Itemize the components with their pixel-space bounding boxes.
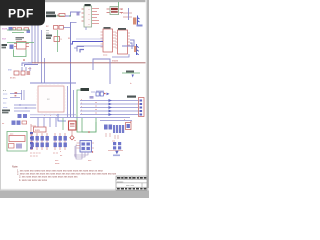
wire (purple bus L2)	[25, 65, 39, 67]
node (red dot on green loop)	[88, 131, 90, 133]
svg-text:xxx: xxx	[46, 33, 49, 35]
wire (green vertical into U2 from top frame)	[118, 2, 120, 6]
label SOT-23 (dark)	[16, 37, 25, 40]
diode D2 (red diamond)	[70, 136, 74, 140]
svg-text:x: x	[50, 115, 51, 117]
svg-text:x: x	[89, 14, 90, 16]
page background	[0, 0, 149, 198]
label (gray text notes right of row1)	[46, 30, 49, 35]
wire (purple bus feeding arrays)	[30, 118, 130, 128]
label Q-dark mid	[46, 35, 52, 40]
background band below page (gradient edge)	[0, 188, 149, 191]
wire (purple bus pair)	[130, 43, 132, 49]
capacitor C4 (blue box row1)	[27, 30, 31, 34]
wire (purple drop below U1)	[85, 27, 87, 30]
relay K1	[9, 134, 26, 149]
transistor Q1	[54, 37, 63, 42]
wire (5 horizontal purple nets to J2)	[80, 101, 138, 115]
pin labels (red ticks at net left ends)	[81, 99, 82, 115]
label tiny red left of bridge	[60, 151, 63, 157]
label MAIN PWR (dark text block right of badge)	[46, 12, 56, 18]
svg-text:xx xx: xx xx	[10, 77, 16, 80]
svg-text:x: x	[44, 115, 45, 117]
value text between nets (red)	[95, 102, 97, 115]
wire (green loop center-bottom)	[82, 118, 96, 132]
op-amp U1 (top middle regulator, green body)	[82, 4, 92, 27]
svg-text:xx xx xx xx: xx xx xx xx	[30, 153, 41, 155]
capacitor C2 C3 (blue pair below nets)	[17, 114, 27, 123]
svg-text:xx xx xx: xx xx xx	[30, 156, 39, 158]
net labels list (left margin)	[2, 90, 10, 113]
wire (purple hook from R4 up)	[64, 23, 77, 28]
wire (green vertical through Q1)	[57, 30, 59, 52]
svg-text:x: x	[81, 106, 82, 108]
transistor pair Q13-Q14 (2x2 blue grid right bottom)	[108, 141, 123, 151]
ic U6 (right upper tall IC)	[116, 28, 131, 54]
wire (purple bus L shapes left)	[22, 63, 32, 66]
svg-text:+: +	[130, 81, 132, 85]
wire (blue L bottom right of MCU)	[58, 114, 66, 121]
capacitor C1 (blue box)	[10, 45, 14, 49]
net flag (blue arrow + label below grid)	[113, 151, 120, 156]
connector J1 (blue, top right)	[133, 16, 143, 27]
wire (green net lower right with label)	[122, 71, 140, 74]
wire (purple bus verticals from top area)	[32, 26, 45, 84]
wire (red nets to J1)	[123, 13, 132, 17]
background band top edge	[0, 0, 149, 2]
svg-text:xxx x xxx: xxx x xxx	[126, 185, 134, 187]
wire (green net row 1)	[7, 30, 30, 33]
svg-text:PDF: PDF	[8, 7, 34, 21]
net flags (blue column right of relay)	[30, 132, 33, 149]
wire (purple nets into MCU left)	[10, 90, 36, 111]
ic U7 (mid-right small IC)	[101, 27, 117, 57]
resistor R3 (row at 25-30)	[46, 25, 63, 29]
svg-text:x: x	[89, 9, 90, 11]
capacitor C5 (purple box left of U1)	[77, 13, 80, 16]
svg-text:xxxxx: xxxxx	[112, 60, 119, 63]
transistor array Q2-Q5 (group 1)	[31, 133, 49, 150]
node (red marks near net list)	[15, 92, 18, 96]
resistor R5 R6 (right of label)	[90, 92, 96, 99]
svg-text:xxxx: xxxx	[35, 129, 41, 132]
wire (green vertical left of F2)	[62, 118, 64, 130]
crystal Y1 cluster	[8, 67, 30, 80]
svg-text:x: x	[89, 24, 90, 26]
pin name text inside U1	[89, 9, 90, 26]
svg-text:x: x	[81, 103, 82, 105]
sheet frame left line	[0, 2, 1, 190]
wire (red net to relay area)	[31, 124, 36, 150]
label red small below J2	[124, 119, 133, 123]
wire (purple bus right bottom)	[100, 120, 132, 122]
wire (green loop right)	[77, 90, 96, 132]
wire (purple bus corner nested)	[80, 50, 84, 53]
svg-text:xx: xx	[95, 102, 97, 104]
wire (purple bus corner right mid)	[77, 47, 84, 52]
wire (green net from label to F1)	[56, 15, 64, 17]
wire (purple net under MCU)	[30, 114, 76, 116]
label (dark above J2)	[127, 96, 136, 98]
diode D1	[9, 27, 16, 31]
node junctions on nets	[19, 104, 26, 108]
background band right of page (gradient edge)	[145, 0, 147, 198]
fuse F1	[57, 14, 65, 17]
net flag (blue arrow below green net)	[132, 75, 134, 78]
connector J2 (right, red outline with blue pins)	[139, 98, 145, 117]
svg-text:x: x	[89, 19, 90, 21]
cluster small comps above relay	[2, 121, 27, 126]
value labels under arrays (red rows)	[30, 153, 59, 158]
svg-text:xx: xx	[74, 140, 76, 142]
ic U5 (small, right-mid)	[96, 91, 110, 96]
wire (purple bus above MCU)	[30, 82, 76, 84]
IC U2 (top right green-framed regulator with dark red label)	[107, 7, 124, 15]
net flags (blue arrows on nets)	[109, 99, 112, 116]
bottom right component row	[104, 123, 131, 140]
wire (nested brackets below J4)	[74, 145, 88, 159]
node (red ticks between array rows, group 2)	[55, 141, 65, 143]
node (red pin dot)	[23, 59, 25, 61]
svg-text:Note:: Note:	[12, 165, 18, 169]
wire (purple loop under U6)	[112, 54, 129, 57]
svg-text:x: x	[56, 115, 57, 117]
wire (green loop around relay)	[7, 132, 27, 152]
wire (purple rect corner center)	[93, 59, 110, 84]
connector J3 (blue, right of U6)	[134, 44, 139, 55]
svg-text:x: x	[81, 113, 82, 115]
resistor R1	[17, 28, 22, 30]
mcu U4 (large central IC)	[36, 84, 66, 114]
ground (dark text block GND)	[2, 44, 8, 48]
wire (bus purple from F1 up and right)	[65, 12, 81, 16]
node junction	[69, 15, 70, 16]
wire (purple bus vertical top right)	[128, 8, 130, 20]
label (dark teal on green net)	[81, 88, 90, 91]
svg-text:xx: xx	[95, 113, 97, 115]
wire (purple bus right of U6)	[122, 40, 134, 46]
label box arrays	[34, 127, 47, 132]
wire (purple right of MCU vertical)	[68, 86, 74, 117]
fuse F2 (red box right of arrays)	[69, 121, 77, 135]
connector J4 (blue block center bottom)	[77, 141, 95, 153]
svg-text:xx: xx	[95, 106, 97, 108]
svg-text:xx: xx	[95, 109, 97, 111]
misc red labels above notes	[55, 160, 92, 165]
wire (green loop lower)	[14, 50, 27, 57]
resistor R2	[24, 28, 29, 30]
pin labels (red text under MCU)	[44, 115, 57, 117]
wire (long vertical purple bus x70)	[70, 22, 72, 117]
value labels right of U2	[121, 8, 123, 15]
IC U3 (small reg upper-left)	[14, 42, 29, 50]
pin row right of U1	[92, 9, 99, 24]
wire (green net row 2)	[7, 42, 34, 44]
wire (long horizontal dark red net y63)	[28, 62, 146, 64]
node (red ticks between array rows, group 1)	[32, 141, 47, 143]
wire (blue bus into U7)	[71, 39, 104, 48]
transistor array Q6-Q8 (group 2)	[54, 133, 67, 150]
svg-text:x: x	[81, 99, 82, 101]
svg-text:4. xxxx xxx xxxx xxx xxxx: 4. xxxx xxx xxxx xxx xxxx	[19, 179, 48, 182]
svg-text:x: x	[81, 110, 82, 112]
